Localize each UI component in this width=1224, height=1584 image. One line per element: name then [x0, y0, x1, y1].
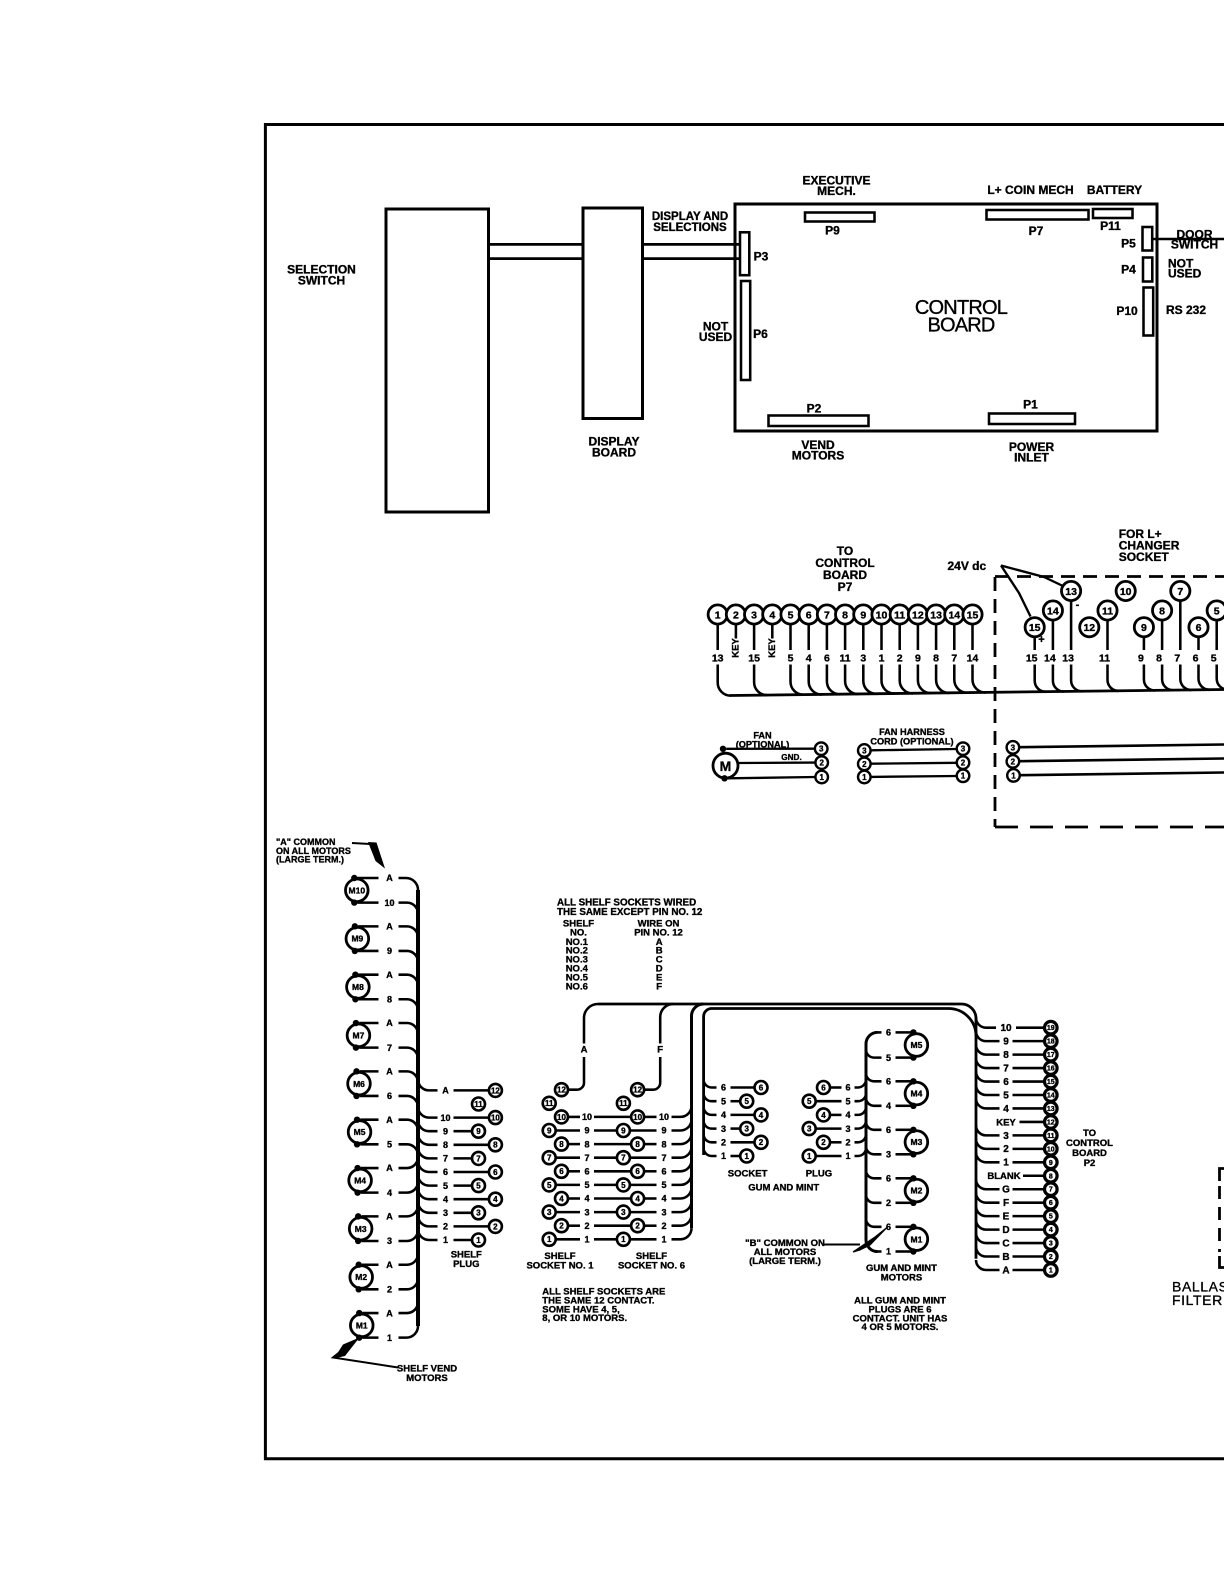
fan plug pin 1 [815, 771, 828, 784]
fan harness left pin 2 [858, 758, 871, 771]
wire label 7 to P2 pin [1013, 1067, 1045, 1070]
wire socket6 pin 10 out (left seg) [644, 1116, 656, 1119]
terminal 4 of gum M4 [910, 1103, 916, 1109]
shelf motor M9 [346, 927, 369, 950]
svg-text:6: 6 [806, 609, 812, 621]
wire pin 1 to bus [718, 665, 731, 696]
svg-text:6: 6 [824, 653, 830, 665]
wire bus to P2 label 8 [976, 1045, 1000, 1055]
svg-text:1: 1 [661, 1235, 666, 1245]
svg-text:M4: M4 [354, 1175, 366, 1185]
shelf socket no.1 pin 10 [555, 1110, 568, 1123]
svg-text:1: 1 [387, 1333, 392, 1343]
svg-text:M1: M1 [910, 1234, 922, 1244]
svg-text:5: 5 [476, 1181, 481, 1190]
wire socket1 pin 1 to socket6 (right seg) [594, 1238, 617, 1241]
wire label 9 to P2 pin [1013, 1040, 1045, 1043]
svg-text:15: 15 [1029, 622, 1041, 634]
wire bundle to shelf plug pin 8 [418, 1134, 438, 1145]
svg-text:7: 7 [824, 609, 830, 621]
wire pin 14 upper [953, 624, 956, 650]
terminal A of M1 [356, 1310, 362, 1316]
pin 18 of P2 connector [1045, 1035, 1058, 1048]
svg-text:7: 7 [621, 1154, 626, 1163]
shelf socket no.6 pin 9 [617, 1124, 630, 1137]
shelf plug pin 3 [472, 1206, 485, 1219]
shelf plug pin 9 [472, 1125, 485, 1138]
shelf socket no.6 pin 1 [617, 1233, 630, 1246]
svg-text:5: 5 [807, 1097, 812, 1106]
terminal A of M8 [352, 971, 358, 977]
gum plug pin 6 [817, 1081, 830, 1094]
wire socket1 pin12 to A riser [568, 1057, 584, 1090]
svg-text:5: 5 [886, 1053, 891, 1063]
svg-text:10: 10 [1120, 586, 1132, 598]
wire bus to P2 label 1 [976, 1152, 1000, 1162]
svg-text:7: 7 [1174, 653, 1180, 665]
svg-text:1: 1 [715, 609, 721, 621]
pin 7 of P7 harness [817, 605, 836, 624]
terminal A of M3 [355, 1213, 361, 1219]
display board box [583, 208, 643, 419]
stub pin 2 (KEY) [735, 624, 738, 638]
wire bus to P2 label 2 [976, 1139, 1000, 1149]
svg-text:6: 6 [559, 1167, 564, 1176]
shelf motor M10 [346, 879, 369, 902]
svg-text:11: 11 [474, 1100, 483, 1109]
wire label 10 to P2 pin [1016, 1026, 1045, 1029]
terminal A of M4 [354, 1165, 360, 1171]
socket6 riser bundle [692, 1004, 704, 1228]
svg-text:6: 6 [1003, 1077, 1009, 1088]
wire pin 8 to bus [845, 665, 858, 695]
svg-text:F: F [657, 1045, 663, 1056]
connector P9 [805, 213, 875, 222]
wire M7 A join bundle [399, 1023, 419, 1034]
wire M5 A segment [360, 1118, 378, 1121]
wire gum plug pin 2 out [830, 1141, 842, 1144]
wire M2 2 join bundle [399, 1278, 419, 1289]
wire label A to P2 pin [1013, 1269, 1045, 1272]
svg-text:MECH.: MECH. [817, 184, 856, 198]
gum socket pin 4 [755, 1108, 768, 1121]
wire label to shelf plug pin 12 [454, 1089, 489, 1092]
wire label 1 to P2 pin [1013, 1161, 1045, 1164]
svg-text:A: A [1002, 1265, 1009, 1276]
svg-text:10: 10 [659, 1112, 669, 1122]
wire pin 9 upper [862, 624, 865, 650]
wire label 6 to P2 pin [1013, 1080, 1045, 1083]
svg-text:SWITCH: SWITCH [298, 273, 345, 287]
svg-text:6: 6 [759, 1083, 764, 1092]
svg-text:11: 11 [619, 1099, 628, 1108]
wire label to M1 numbered terminal [896, 1250, 911, 1253]
wire label to M4 numbered terminal [896, 1105, 911, 1108]
wire socket1 pin 8 to socket6 (left seg) [568, 1143, 580, 1146]
wire bus to P2 label C [976, 1233, 1000, 1243]
svg-text:INLET: INLET [1014, 451, 1049, 465]
svg-text:5: 5 [584, 1180, 589, 1190]
wire M4 4 segment [361, 1191, 379, 1194]
wire socket6 pin 3 to riser bundle [672, 1201, 692, 1212]
svg-text:10: 10 [384, 898, 394, 908]
wire label to M2 common terminal [896, 1177, 911, 1180]
svg-text:7: 7 [1177, 586, 1183, 598]
wire label to M2 numbered terminal [896, 1202, 911, 1205]
pin 19 of P2 connector [1045, 1021, 1058, 1034]
svg-text:4: 4 [661, 1194, 666, 1204]
svg-text:B: B [1002, 1252, 1009, 1263]
svg-text:FILTER: FILTER [1172, 1292, 1223, 1308]
shelf socket no.6 pin 11 [617, 1097, 630, 1110]
wire bus to P2 label G [976, 1179, 1000, 1189]
wire socket1 pin 10 to socket6 (right seg) [594, 1116, 631, 1119]
wire M7 7 join bundle [399, 1048, 419, 1059]
svg-text:6: 6 [821, 1083, 826, 1092]
svg-text:2: 2 [886, 1198, 891, 1208]
leader shelf vend motors [333, 1347, 398, 1368]
pin 2 of P2 connector [1045, 1250, 1058, 1263]
wire M1 1 join bundle (bottom corner) [399, 1326, 419, 1338]
wire socket1 pin 5 to socket6 (right seg) [594, 1184, 617, 1187]
wire bus to P2 label D [976, 1220, 1000, 1230]
gum socket pin 6 [755, 1081, 768, 1094]
wire M8 A segment [359, 973, 379, 976]
pin 1 of P2 connector [1045, 1264, 1058, 1277]
svg-text:2: 2 [821, 1138, 826, 1147]
svg-text:5: 5 [1214, 605, 1220, 617]
wire label C to P2 pin [1013, 1242, 1045, 1245]
shelf motor M4 [349, 1169, 372, 1192]
shelf plug pin 8 [489, 1138, 502, 1151]
wire pin 10 to bus [882, 665, 895, 694]
svg-text:M3: M3 [910, 1137, 922, 1147]
svg-text:1: 1 [1003, 1158, 1009, 1169]
svg-text:4: 4 [584, 1194, 589, 1204]
wire bundle to shelf plug pin 7 [418, 1147, 438, 1158]
svg-text:E: E [1003, 1212, 1010, 1223]
pin 15 of P2 connector [1045, 1075, 1058, 1088]
svg-text:3: 3 [443, 1208, 448, 1218]
svg-text:4: 4 [845, 1110, 850, 1120]
harness bus line 2 (gum feed) [704, 1009, 976, 1156]
svg-text:P7: P7 [1029, 224, 1044, 238]
svg-text:8: 8 [493, 1141, 498, 1150]
wire label to gum socket pin 1 [731, 1155, 741, 1158]
wire label E to P2 pin [1013, 1215, 1045, 1218]
wire M8 A join bundle [399, 975, 419, 986]
terminal A of M7 [353, 1020, 359, 1026]
fan motor M [713, 753, 738, 778]
svg-text:KEY: KEY [767, 638, 778, 658]
pin 11 of P7 harness [890, 605, 909, 624]
wire bundle to shelf plug pin 2 [418, 1215, 438, 1226]
svg-text:6: 6 [635, 1167, 640, 1176]
svg-text:PLUG: PLUG [453, 1259, 479, 1270]
wire label to shelf plug pin 2 [454, 1225, 489, 1228]
shelf socket no.1 pin 5 [543, 1178, 556, 1191]
svg-text:6: 6 [1196, 622, 1202, 634]
harness bus line 1 [598, 1004, 976, 1259]
terminal 5 of gum M5 [910, 1054, 916, 1060]
wire changer pin 9 to bus [1144, 665, 1155, 691]
wire M9 9 segment [358, 950, 378, 953]
svg-text:A: A [386, 1018, 393, 1028]
svg-text:M2: M2 [910, 1186, 922, 1196]
svg-text:7: 7 [547, 1154, 552, 1163]
wire gum bus to M5 pin 5 [866, 1050, 882, 1058]
terminal 1 of gum M1 [910, 1248, 916, 1254]
pin 3 of P2 connector [1045, 1237, 1058, 1250]
shelf plug pin 5 [472, 1179, 485, 1192]
svg-text:6: 6 [886, 1222, 891, 1232]
svg-text:6: 6 [721, 1083, 726, 1093]
wire gum plug 3 to motor bus [855, 1121, 867, 1129]
svg-text:4: 4 [759, 1111, 764, 1120]
wire gum bus to M1 common [866, 1219, 882, 1227]
wire changer pin 5 upper [1215, 620, 1218, 650]
gum socket pin 3 [740, 1122, 753, 1135]
svg-text:2: 2 [759, 1138, 764, 1147]
wire pin 15 to bus [973, 665, 986, 693]
wire label to M1 common terminal [896, 1226, 911, 1229]
pin 8 of P7 harness [836, 605, 855, 624]
svg-text:BOARD: BOARD [592, 445, 636, 459]
svg-text:13: 13 [930, 609, 942, 621]
wire M3 A join bundle [399, 1205, 419, 1216]
svg-text:15: 15 [1026, 653, 1038, 665]
wire label to gum socket pin 3 [731, 1127, 741, 1130]
svg-text:13: 13 [712, 653, 724, 665]
harness bus line to changer socket [730, 690, 1224, 696]
svg-text:8: 8 [933, 653, 939, 665]
svg-text:L+ COIN MECH: L+ COIN MECH [987, 183, 1073, 197]
wire socket1 pin 9 to socket6 (right seg) [594, 1129, 617, 1132]
svg-text:A: A [386, 1067, 393, 1077]
gum plug pin 4 [817, 1108, 830, 1121]
svg-text:3: 3 [1049, 1241, 1053, 1248]
svg-text:6: 6 [584, 1167, 589, 1177]
shelf plug pin 6 [489, 1166, 502, 1179]
pin 9 of P2 connector [1045, 1156, 1058, 1169]
wire pin 8 upper [844, 624, 847, 650]
wire M1 A segment [362, 1312, 378, 1315]
svg-text:P5: P5 [1121, 237, 1136, 251]
svg-text:6: 6 [886, 1028, 891, 1038]
shelf socket no.1 pin 11 [543, 1097, 556, 1110]
wire label to shelf plug pin 4 [454, 1198, 489, 1201]
shelf motor M8 [347, 976, 370, 999]
shelf motor M6 [348, 1072, 371, 1095]
svg-text:P11: P11 [1100, 219, 1121, 233]
svg-text:NO.6: NO.6 [566, 981, 588, 992]
svg-text:1: 1 [721, 1151, 726, 1161]
wire label to M4 common terminal [896, 1080, 911, 1083]
wire socket6 pin 8 to riser bundle [672, 1133, 692, 1144]
arrowhead shelf vend motors [334, 1338, 360, 1359]
svg-text:9: 9 [1141, 622, 1147, 634]
svg-text:P9: P9 [825, 224, 840, 238]
shelf socket no.1 pin 9 [543, 1124, 556, 1137]
wire fan harness 1 [871, 775, 957, 778]
wire socket1 pin 1 to socket6 (left seg) [556, 1238, 580, 1241]
svg-text:9: 9 [661, 1126, 666, 1136]
svg-text:9: 9 [621, 1126, 626, 1135]
pin 16 of P2 connector [1045, 1062, 1058, 1075]
svg-text:6: 6 [1193, 653, 1199, 665]
wire socket1 pin 2 to socket6 (left seg) [568, 1224, 580, 1227]
wire gum bus to M3 common [866, 1122, 882, 1130]
svg-text:RS 232: RS 232 [1166, 303, 1206, 317]
wire M2 2 segment [362, 1288, 379, 1291]
shelf motor M1 [350, 1314, 373, 1337]
wire pin 5 upper [789, 624, 792, 650]
wire M3 A segment [361, 1215, 378, 1218]
svg-text:2: 2 [661, 1221, 666, 1231]
shelf socket no.6 pin 8 [631, 1138, 644, 1151]
svg-text:10: 10 [633, 1113, 642, 1122]
svg-text:3: 3 [807, 1124, 812, 1133]
terminal 2 of M2 [356, 1286, 362, 1292]
svg-text:6: 6 [387, 1091, 392, 1101]
wire gum plug pin 5 out [816, 1100, 842, 1103]
connector P10 [1144, 288, 1154, 336]
wire socket1 pin 5 to socket6 (left seg) [556, 1184, 580, 1187]
svg-text:4: 4 [721, 1110, 726, 1120]
wire label G to P2 pin [1013, 1188, 1045, 1191]
svg-text:17: 17 [1047, 1052, 1055, 1059]
shelf socket no.6 pin 5 [617, 1178, 630, 1191]
wire changer pin 11 to bus [1108, 665, 1119, 691]
svg-text:BLANK: BLANK [987, 1171, 1020, 1182]
wire gum feed to socket pin 4 [704, 1107, 717, 1115]
connector P1 (board) [989, 414, 1075, 425]
wire BLANK to P2 pin [1023, 1174, 1045, 1177]
wire socket1 pin 7 to socket6 (right seg) [594, 1156, 617, 1159]
wire bundle to shelf plug pin 4 [418, 1188, 438, 1199]
svg-text:5: 5 [621, 1181, 626, 1190]
wire label to gum socket pin 2 [731, 1141, 755, 1144]
wire socket1 pin 6 to socket6 (right seg) [594, 1170, 631, 1173]
gum motor M1 [905, 1228, 928, 1251]
wire fan to plug 3 [726, 748, 815, 750]
svg-text:10: 10 [491, 1113, 500, 1122]
pin 11 of P2 connector [1045, 1129, 1058, 1142]
svg-text:6: 6 [443, 1167, 448, 1177]
wire M6 6 join bundle [399, 1096, 419, 1107]
wire pin 11 to bus [900, 665, 913, 694]
wire socket6 pin 1 to riser bundle [672, 1228, 692, 1239]
wire fan to plug 2 (GND) [738, 761, 815, 764]
svg-text:2: 2 [635, 1222, 640, 1231]
changer socket pin 7 [1171, 581, 1190, 600]
svg-text:2: 2 [443, 1222, 448, 1232]
svg-text:1: 1 [845, 1151, 850, 1161]
svg-text:2: 2 [897, 653, 903, 665]
svg-text:4: 4 [806, 653, 812, 665]
svg-text:13: 13 [1047, 1106, 1055, 1113]
wire M4 4 join bundle [399, 1182, 419, 1193]
svg-text:C: C [1002, 1238, 1009, 1249]
F riser to harness [660, 1004, 673, 1044]
changer socket pin 8 [1153, 601, 1172, 620]
shelf motor harness bundle [416, 890, 420, 1326]
svg-text:P2: P2 [807, 402, 822, 416]
svg-text:4: 4 [443, 1194, 448, 1204]
gum motor bus [866, 1032, 878, 1251]
svg-text:M7: M7 [353, 1030, 365, 1040]
changer dashed box top edge [995, 575, 1224, 578]
wire socket6 pin 7 to riser bundle [672, 1147, 692, 1158]
svg-text:8: 8 [443, 1140, 448, 1150]
changer socket pin 14 [1043, 601, 1062, 620]
svg-text:P4: P4 [1121, 263, 1136, 277]
wire pin 7 to bus [827, 665, 840, 695]
wire gum plug 2 to motor bus [855, 1134, 867, 1142]
wire label 2 to P2 pin [1013, 1148, 1045, 1151]
fan harness right pin 3 [957, 742, 970, 755]
wire pin 6 upper [807, 624, 810, 650]
changer socket pin 6 [1189, 618, 1208, 637]
svg-text:2: 2 [387, 1285, 392, 1295]
fan harness left pin 3 [858, 744, 871, 757]
wire gum bus to M4 common [866, 1073, 882, 1081]
wire socket6 pin 5 out (left seg) [630, 1184, 657, 1187]
wire pin 5 to bus [791, 665, 804, 695]
pin 4 of P2 connector [1045, 1223, 1058, 1236]
wire changer pin 13 to bus [1071, 665, 1082, 692]
wire label to shelf plug pin 8 [454, 1144, 489, 1147]
wire pin 12 to bus [918, 665, 931, 694]
wire socket1 pin 4 to socket6 (left seg) [568, 1197, 580, 1200]
svg-text:1: 1 [744, 1152, 749, 1161]
svg-text:6: 6 [886, 1077, 891, 1087]
fan harness right pin 2 [957, 756, 970, 769]
wire socket1 pin 9 to socket6 (left seg) [556, 1129, 580, 1132]
svg-text:KEY: KEY [996, 1117, 1016, 1128]
svg-text:9: 9 [584, 1126, 589, 1136]
wire bus to P2 label 3 [976, 1125, 1000, 1135]
svg-text:1: 1 [584, 1235, 589, 1245]
wire gum feed to socket pin 5 [704, 1093, 717, 1101]
terminal A of M6 [353, 1068, 359, 1074]
wire bus to P2 label A [976, 1260, 1000, 1270]
svg-text:12: 12 [1047, 1119, 1055, 1126]
leader 24V dc to pin 13 [1001, 566, 1064, 587]
wire M4 A segment [361, 1167, 379, 1170]
svg-text:P10: P10 [1116, 304, 1138, 318]
svg-text:8: 8 [559, 1140, 564, 1149]
wire socket1 pin 3 to socket6 (right seg) [594, 1211, 617, 1214]
svg-text:3: 3 [721, 1124, 726, 1134]
shelf socket no.6 pin 3 [617, 1206, 630, 1219]
svg-text:M1: M1 [356, 1320, 368, 1330]
wire pin 7 upper [826, 624, 829, 650]
wire changer pin 6 upper [1197, 637, 1200, 650]
pin 5 of P7 harness [781, 605, 800, 624]
gum motor M2 [905, 1179, 928, 1202]
changer cord pin 2 [1007, 755, 1020, 768]
wire M10 10 segment [358, 901, 379, 904]
pin 8 of P2 connector [1045, 1169, 1058, 1182]
connector P6 [741, 281, 750, 380]
wire M7 A segment [359, 1022, 378, 1025]
shelf socket no.1 pin 1 [543, 1233, 556, 1246]
gum plug pin 3 [803, 1122, 816, 1135]
wire changer pin 14 upper [1052, 620, 1055, 650]
wire gum plug pin 6 out [830, 1086, 842, 1089]
wire changer pin 6 to bus [1199, 665, 1210, 690]
